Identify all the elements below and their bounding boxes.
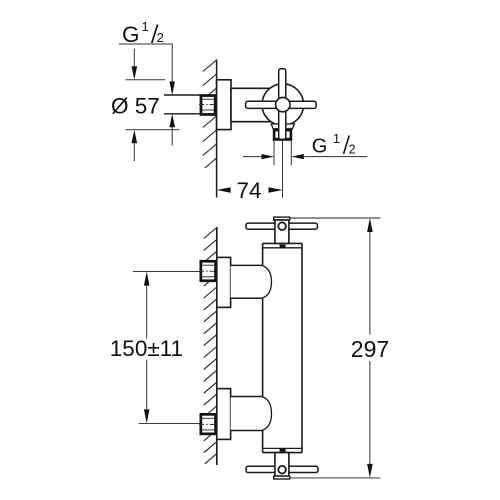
hub circle (top view)	[276, 97, 290, 111]
top handle bar (side view)	[246, 223, 317, 229]
top handle screw circle	[278, 222, 286, 230]
outlet collar trapezoid	[271, 124, 294, 129]
check valve dome upper	[262, 265, 272, 298]
top handle hub	[275, 220, 289, 243]
wall thread block (top view)	[199, 94, 216, 116]
main body column	[263, 243, 302, 452]
cross handle vertical arm (top view)	[279, 69, 286, 140]
dimension G1/2 right label	[243, 132, 367, 159]
dimension 74	[217, 178, 283, 203]
column top plate line	[263, 247, 302, 249]
wall flange / escutcheon (top view)	[217, 80, 231, 130]
wall line (bottom view)	[216, 227, 218, 465]
wall hatching (top view)	[203, 60, 217, 168]
svg-text:2: 2	[349, 143, 356, 157]
s-union neck upper	[231, 265, 263, 298]
extension line outlet left	[273, 141, 275, 166]
wall thread block upper (bottom view)	[199, 260, 217, 282]
dimension 150 extension line bottom	[139, 422, 200, 424]
top plate black mark	[280, 245, 286, 248]
extension line outlet center	[282, 141, 284, 198]
extension line outlet right	[290, 141, 292, 166]
valve body (top view)	[231, 88, 270, 121]
dimension G1/2 top label	[119, 19, 175, 146]
outlet thread bottom edge	[273, 139, 292, 141]
svg-text:2: 2	[157, 30, 164, 45]
wire: inlet pipe nipple outline	[164, 95, 201, 114]
dimension 297	[290, 218, 389, 478]
svg-text:G: G	[122, 22, 140, 47]
handle circle (top view)	[262, 84, 304, 126]
dimension 150 extension line top	[133, 271, 200, 273]
s-union neck lower	[231, 397, 263, 431]
wall thread block lower (bottom view)	[199, 413, 217, 435]
svg-text:G: G	[312, 136, 328, 158]
escutcheon lower (bottom view)	[217, 389, 231, 440]
svg-text:1: 1	[142, 19, 149, 34]
bottom handle hub	[275, 453, 289, 477]
bottom handle screw circle	[278, 466, 286, 474]
dimension 150±11	[110, 272, 183, 424]
cross handle horizontal arm (top view)	[246, 101, 317, 108]
check valve dome lower	[262, 397, 272, 431]
svg-text:1: 1	[333, 132, 340, 146]
bottom plate black mark	[280, 449, 286, 452]
bottom handle bar (side view)	[246, 466, 318, 472]
escutcheon upper (bottom view)	[217, 257, 231, 307]
svg-text:Ø 57: Ø 57	[111, 94, 160, 119]
outlet thread block	[273, 129, 292, 141]
dimension Ø57	[111, 49, 179, 162]
wall line (top view)	[216, 60, 218, 198]
column bottom plate line	[263, 447, 302, 449]
top handle cap	[274, 217, 290, 220]
bottom handle cap	[274, 476, 290, 479]
svg-text:297: 297	[351, 336, 389, 362]
svg-text:150±11: 150±11	[110, 336, 183, 361]
svg-text:74: 74	[237, 178, 262, 203]
wall hatching (bottom view)	[204, 228, 217, 464]
